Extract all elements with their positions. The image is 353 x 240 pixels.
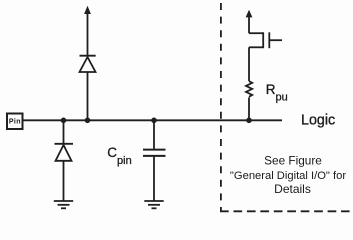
dashed boundary: vertical [220,0,222,211]
resistor R_pu zigzag [246,81,252,97]
transistor Q1 channel [262,32,264,48]
junction dot: top diode node [85,118,91,124]
svg-text:"General Digital I/O" for: "General Digital I/O" for [230,170,346,182]
wire: capacitor to ground [153,156,155,201]
junction dot: bottom diode node [61,118,67,124]
wire: capacitor branch vertical [153,120,155,149]
svg-text:Logic: Logic [301,113,335,129]
wire: top ESD branch vertical [87,72,89,120]
VCC arrow (left) [84,6,91,14]
transistor Q1 gate bar [268,32,270,48]
dashed boundary: bottom horizontal [220,210,350,212]
wire: pull-up branch vertical (wire to resistor) [248,98,250,121]
diode D1 (ESD to VCC) triangle [80,57,96,72]
diode D2 (ESD to GND) triangle [56,145,72,161]
junction dot: capacitor node [151,118,157,124]
wire: resistor to transistor source [248,47,250,81]
wire: diode D2 to ground [63,161,65,201]
wire: bottom ESD branch vertical [63,120,65,144]
diode D1 cathode bar [80,55,96,57]
ground GND1 [54,200,73,202]
svg-text:Details: Details [274,182,311,196]
diode D2 cathode bar [55,143,74,145]
svg-text:Pin: Pin [9,118,21,125]
pin box P1 [7,114,23,130]
transistor Q1 gate lead [269,39,282,41]
capacitor C_pin plates [143,149,166,151]
svg-text:See Figure: See Figure [264,154,322,168]
VCC arrow (right) [246,10,253,18]
wire: transistor drain to VCC arrow [248,17,250,34]
transistor Q1 source lead [249,46,263,48]
junction dot: pull-up node [246,118,252,124]
wire: diode D1 to VCC arrow [87,13,89,56]
transistor Q1 drain lead [249,32,263,34]
main horizontal wire: pin to logic [23,119,282,121]
ground GND2 [144,200,163,202]
